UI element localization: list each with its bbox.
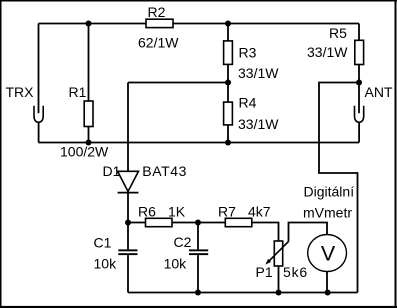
wire R3 R4 branch — [227, 24, 229, 143]
svg-text:4k7: 4k7 — [248, 204, 271, 220]
junction R1 bottom — [86, 140, 92, 146]
label ANT — [365, 84, 393, 100]
svg-text:100/2W: 100/2W — [60, 144, 109, 160]
resistor R4 — [224, 102, 233, 125]
label D1 value BAT43 — [142, 163, 187, 179]
wire TRX pin drop — [38, 24, 40, 114]
label R6 — [138, 204, 156, 220]
label P1 value 5k6 — [283, 264, 308, 280]
wire ANT pin drop — [358, 83, 360, 114]
svg-text:BAT43: BAT43 — [142, 163, 187, 179]
svg-text:33/1W: 33/1W — [238, 65, 279, 81]
svg-text:R6: R6 — [138, 204, 156, 220]
junction R1 top — [86, 21, 92, 27]
wire P1 wiper to voltmeter — [289, 223, 328, 242]
connector TRX jack cup — [34, 106, 43, 123]
label C2 value 10k — [164, 256, 188, 272]
wire R5 branch from top bus — [358, 24, 360, 83]
svg-text:R2: R2 — [148, 4, 166, 20]
svg-text:10k: 10k — [164, 256, 188, 272]
svg-text:R5: R5 — [329, 25, 347, 41]
wire TRX cup to ground rail — [38, 122, 40, 143]
resistor R6 — [146, 218, 173, 226]
svg-text:62/1W: 62/1W — [138, 35, 179, 51]
svg-text:D1: D1 — [103, 163, 121, 179]
wire voltmeter bottom — [326, 272, 328, 293]
svg-text:R3: R3 — [239, 45, 257, 61]
resistor R3 — [224, 41, 233, 65]
capacitor C2 — [189, 223, 208, 293]
label R1 value 100/2W — [60, 144, 109, 160]
label R7 value 4k7 — [248, 204, 271, 220]
resistor R2 — [146, 19, 173, 27]
label R1 — [69, 84, 87, 100]
label R6 value 1K — [168, 204, 186, 220]
resistor R7 — [225, 218, 252, 226]
label C2 — [174, 234, 192, 250]
svg-text:33/1W: 33/1W — [238, 116, 279, 132]
label R3 — [239, 45, 257, 61]
label TRX — [6, 84, 35, 100]
label C1 value 10k — [94, 256, 118, 272]
svg-text:R4: R4 — [239, 95, 257, 111]
junction P1 bottom — [276, 290, 282, 296]
svg-text:C1: C1 — [94, 235, 112, 251]
wire bottom rail — [128, 292, 358, 294]
junction D1 C1 node — [125, 220, 131, 226]
wire ANT cup to ground rail — [358, 122, 360, 143]
diode D1 — [118, 171, 139, 192]
wire D1 cathode to detector rail — [127, 193, 129, 223]
wire P1 bottom to bottom rail — [278, 266, 280, 292]
svg-text:P1: P1 — [256, 264, 273, 280]
wire meter feed from ANT node — [319, 83, 359, 293]
wire top bus from TRX to R5 corner — [39, 23, 360, 25]
svg-text:V: V — [321, 242, 336, 266]
wire node between R3 and R4 to D1 — [128, 82, 228, 84]
svg-text:33/1W: 33/1W — [307, 44, 348, 60]
wire R1 branch — [88, 24, 90, 143]
voltmeter V1 — [308, 235, 347, 272]
wire D1 anode drop — [127, 83, 129, 172]
wire detector rail D1 to P1 — [128, 223, 279, 242]
junction R6 R7 C2 node — [195, 220, 201, 226]
junction R4 bottom — [225, 140, 231, 146]
label C1 — [94, 235, 112, 251]
resistor R1 — [84, 101, 93, 127]
svg-text:R1: R1 — [69, 84, 87, 100]
label R3 value 33/1W — [238, 65, 279, 81]
label R7 — [218, 204, 236, 220]
label P1 — [256, 264, 273, 280]
label R4 — [239, 95, 257, 111]
wire ground rail — [39, 142, 360, 144]
capacitor C1 — [118, 223, 137, 293]
svg-text:10k: 10k — [94, 256, 118, 272]
svg-text:TRX: TRX — [6, 84, 35, 100]
junction ANT node — [356, 80, 362, 86]
connector ANT jack cup — [355, 106, 364, 123]
junction R3 R4 midpoint — [225, 80, 231, 86]
label R4 value 33/1W — [238, 116, 279, 132]
label Digitalni mVmetr — [303, 184, 354, 221]
resistor R5 — [355, 40, 364, 64]
svg-text:Digitální: Digitální — [304, 184, 355, 200]
junction voltmeter bottom — [325, 290, 331, 296]
potentiometer P1 — [265, 241, 288, 266]
svg-text:C2: C2 — [174, 234, 192, 250]
svg-text:R7: R7 — [218, 204, 236, 220]
label R5 value 33/1W — [307, 44, 348, 60]
junction R3 top — [225, 21, 231, 27]
svg-text:mVmetr: mVmetr — [303, 205, 352, 221]
svg-text:5k6: 5k6 — [283, 264, 308, 280]
junction C2 bottom — [195, 290, 201, 296]
label R2 value 62/1W — [138, 35, 179, 51]
label R5 — [329, 25, 347, 41]
label R2 — [148, 4, 166, 20]
svg-text:ANT: ANT — [365, 84, 393, 100]
label D1 — [103, 163, 121, 179]
svg-text:1K: 1K — [168, 204, 186, 220]
